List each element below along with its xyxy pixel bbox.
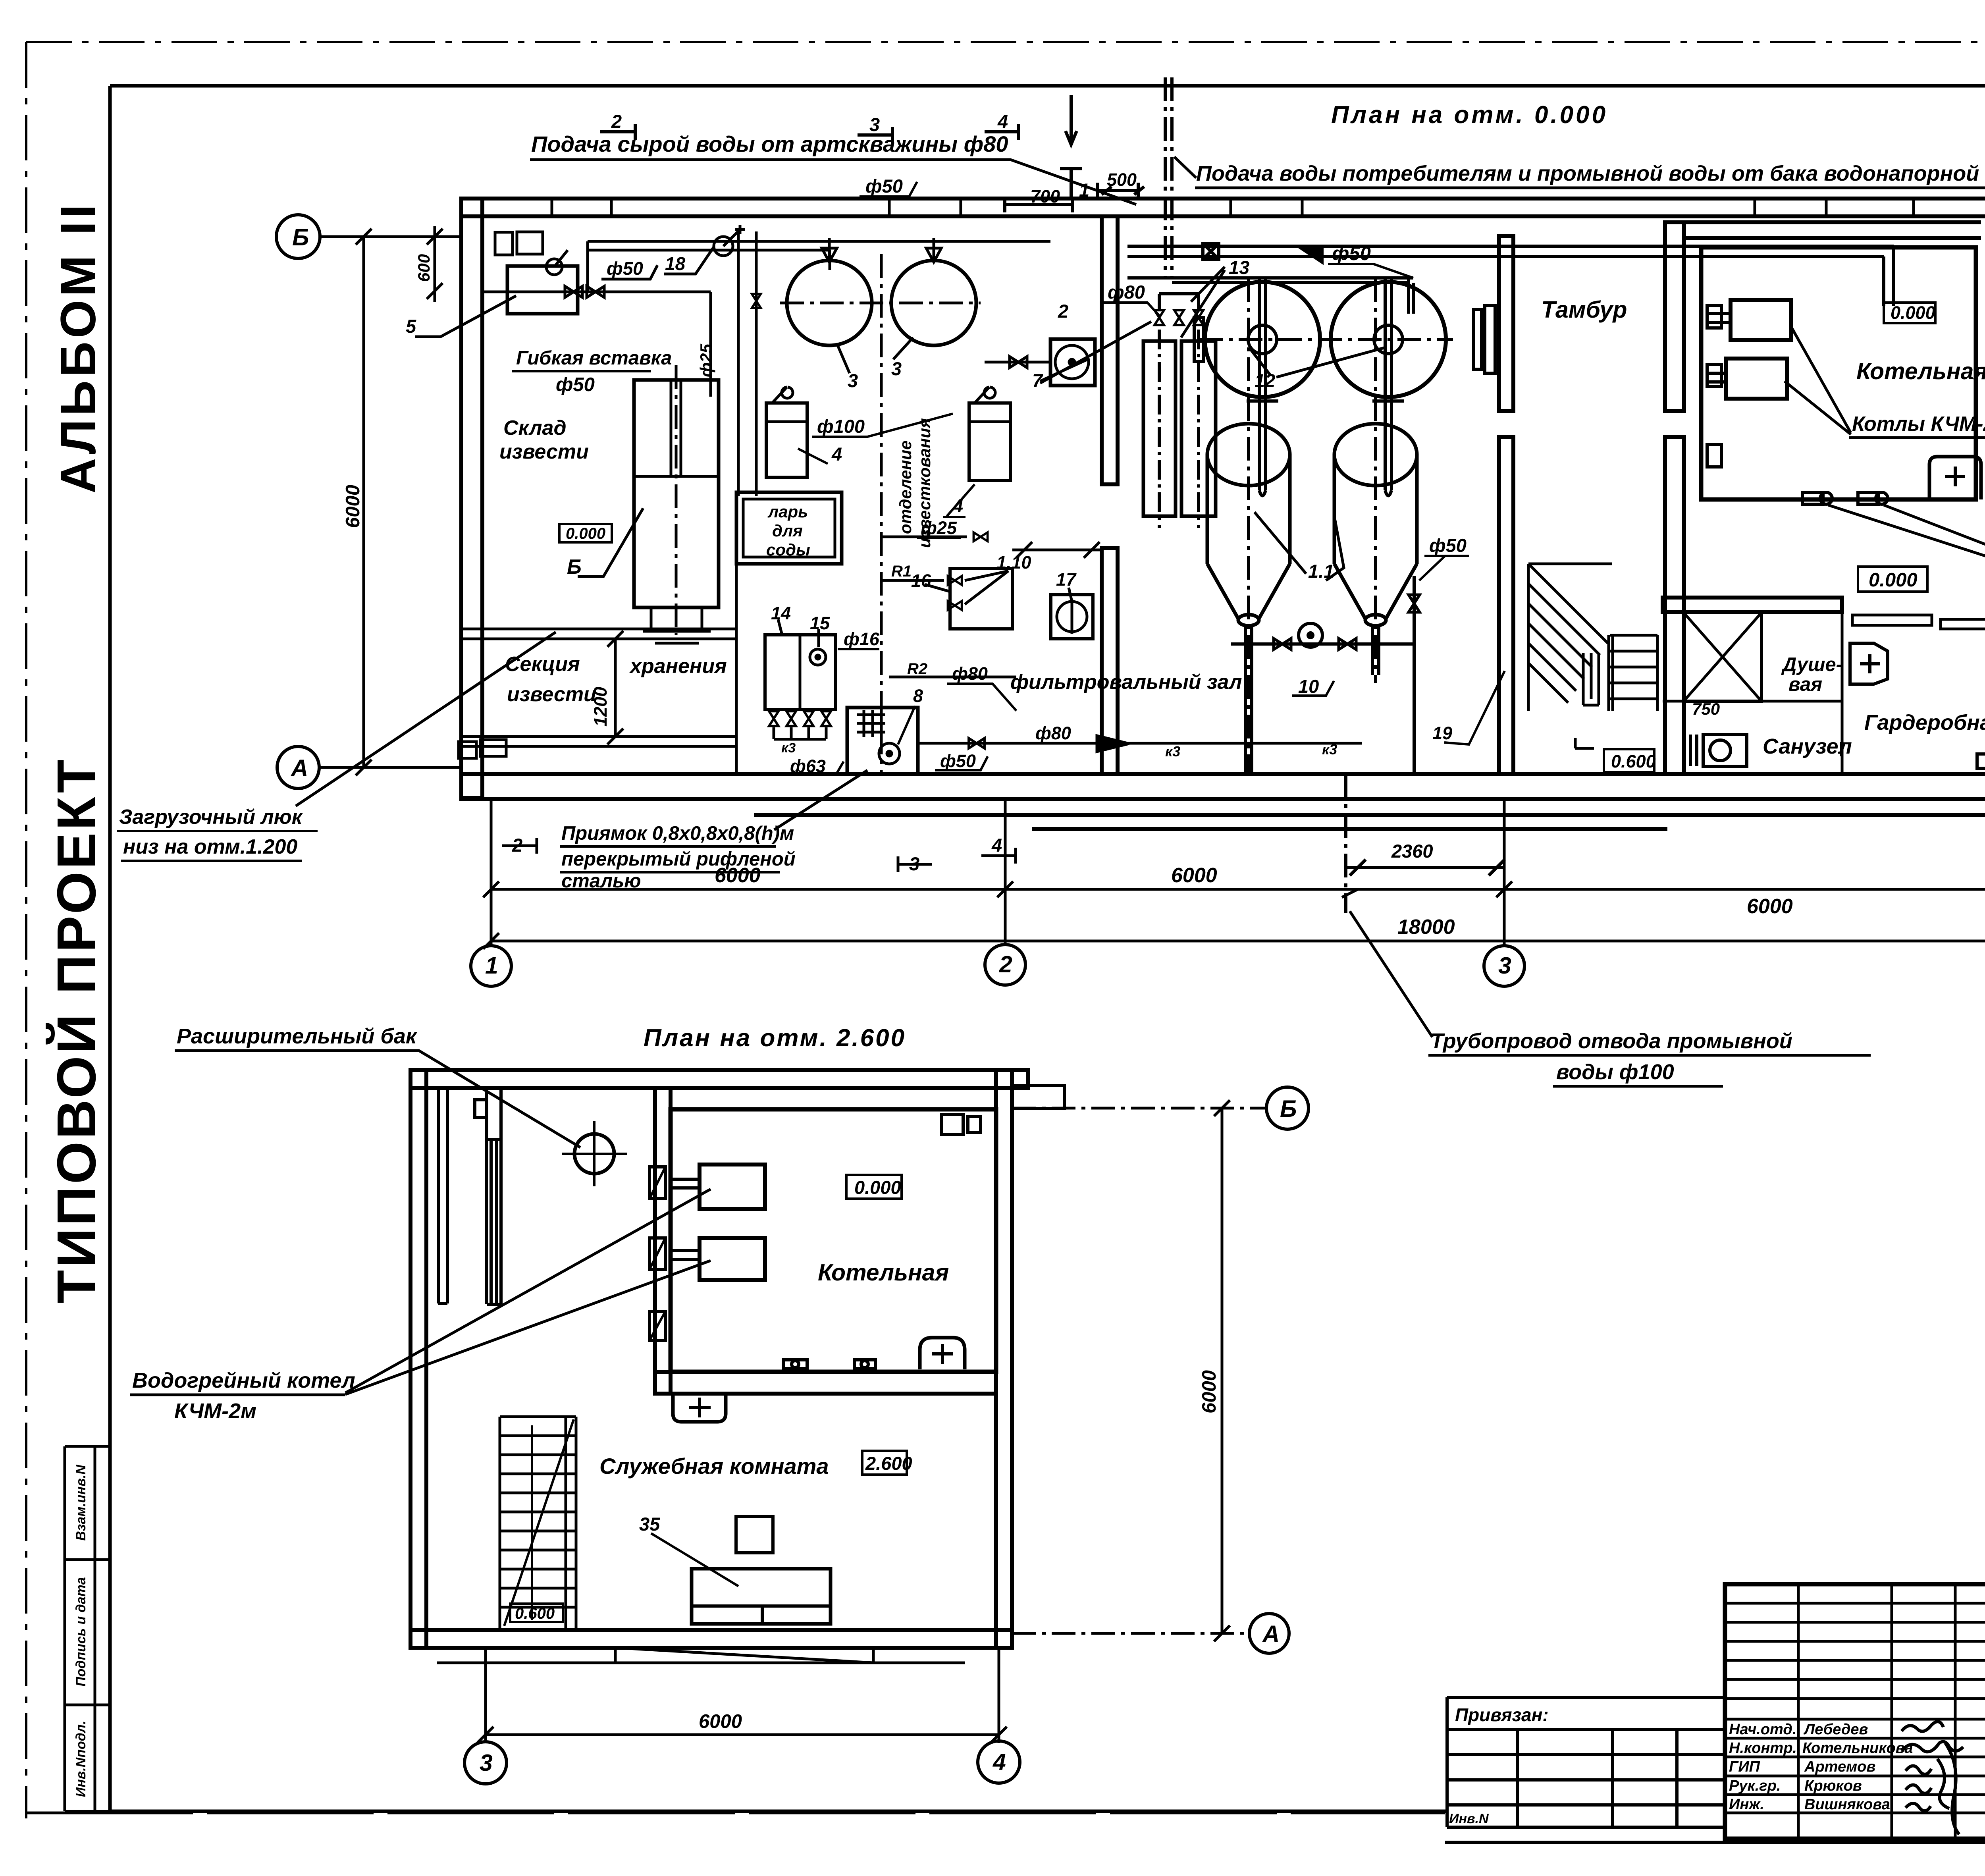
svg-text:Н.контр.: Н.контр. — [1729, 1740, 1797, 1756]
svg-text:ларь: ларь — [767, 502, 808, 521]
svg-text:Служебная комната: Служебная комната — [599, 1454, 829, 1479]
svg-text:R1: R1 — [891, 563, 912, 580]
svg-text:Душе-: Душе- — [1781, 654, 1842, 675]
svg-text:4: 4 — [991, 835, 1002, 856]
svg-text:План на отм. 2.600: План на отм. 2.600 — [644, 1024, 906, 1052]
svg-text:16: 16 — [911, 571, 931, 591]
svg-text:хранения: хранения — [629, 655, 727, 678]
svg-text:3: 3 — [1498, 952, 1511, 979]
svg-text:отделение: отделение — [896, 440, 915, 534]
svg-text:12: 12 — [1255, 370, 1275, 391]
svg-text:Подача сырой воды от артскважи: Подача сырой воды от артскважины ф80 — [531, 131, 1008, 156]
svg-text:750: 750 — [1692, 700, 1720, 718]
svg-text:4: 4 — [992, 1749, 1006, 1775]
svg-text:А: А — [1262, 1621, 1280, 1647]
svg-text:Б: Б — [292, 224, 309, 251]
svg-text:6000: 6000 — [715, 864, 761, 887]
svg-text:ф80: ф80 — [1035, 723, 1071, 743]
svg-text:ф50: ф50 — [556, 374, 595, 395]
svg-text:Б: Б — [567, 555, 582, 578]
svg-text:6000: 6000 — [1199, 1370, 1220, 1413]
svg-text:извести: извести — [507, 683, 596, 706]
svg-text:Крюков: Крюков — [1804, 1778, 1862, 1794]
svg-text:0.000: 0.000 — [854, 1177, 901, 1198]
svg-text:соды: соды — [766, 540, 810, 559]
svg-text:35: 35 — [639, 1514, 660, 1535]
svg-text:14: 14 — [771, 603, 791, 623]
svg-text:ф50: ф50 — [865, 175, 903, 197]
svg-text:Тамбур: Тамбур — [1541, 297, 1627, 323]
svg-text:Котельная: Котельная — [818, 1259, 949, 1286]
svg-text:Загрузочный люк: Загрузочный люк — [119, 806, 303, 829]
svg-text:15: 15 — [810, 613, 830, 633]
svg-text:Склад: Склад — [503, 416, 567, 440]
svg-text:2: 2 — [1058, 301, 1068, 322]
svg-text:0.000: 0.000 — [566, 525, 605, 542]
svg-text:КЧМ-2м: КЧМ-2м — [174, 1399, 256, 1423]
svg-text:17: 17 — [1056, 569, 1077, 590]
svg-text:6000: 6000 — [342, 485, 364, 528]
svg-text:ф50: ф50 — [607, 258, 643, 279]
svg-text:ф25: ф25 — [697, 343, 715, 377]
svg-text:Трубопровод отвода промывной: Трубопровод отвода промывной — [1430, 1029, 1792, 1053]
svg-text:Гибкая вставка: Гибкая вставка — [516, 347, 672, 369]
svg-text:ф25: ф25 — [921, 518, 957, 538]
svg-text:0.000: 0.000 — [1891, 303, 1935, 323]
svg-text:фильтровальный зал: фильтровальный зал — [1010, 671, 1242, 694]
svg-text:Подача воды потребителям и про: Подача воды потребителям и промывной вод… — [1196, 162, 1985, 185]
svg-text:Водогрейный котел: Водогрейный котел — [132, 1369, 355, 1392]
svg-text:2: 2 — [512, 835, 522, 856]
svg-text:ф50: ф50 — [1429, 535, 1467, 556]
svg-text:500: 500 — [1107, 170, 1137, 190]
svg-text:6000: 6000 — [1171, 864, 1217, 887]
svg-text:700: 700 — [1030, 186, 1060, 206]
svg-text:1.10: 1.10 — [996, 552, 1031, 573]
svg-text:8: 8 — [913, 686, 923, 706]
svg-text:0.000: 0.000 — [1869, 569, 1918, 591]
svg-text:Приямок 0,8х0,8х0,8(h)м: Приямок 0,8х0,8х0,8(h)м — [561, 823, 794, 844]
svg-text:Привязан:: Привязан: — [1455, 1704, 1549, 1725]
svg-text:Котельная: Котельная — [1856, 358, 1985, 384]
svg-text:2.600: 2.600 — [865, 1453, 912, 1474]
svg-text:5: 5 — [406, 316, 416, 337]
svg-text:Котельникова: Котельникова — [1802, 1740, 1913, 1756]
svg-text:13: 13 — [1229, 257, 1249, 278]
svg-text:ф80: ф80 — [1108, 281, 1145, 303]
svg-text:ф50: ф50 — [1332, 243, 1371, 264]
svg-text:Рук.гр.: Рук.гр. — [1729, 1778, 1781, 1794]
svg-text:Взам.инв.N: Взам.инв.N — [73, 1464, 89, 1541]
svg-text:Гардеробная: Гардеробная — [1864, 711, 1985, 735]
svg-text:Подпись и дата: Подпись и дата — [73, 1577, 89, 1687]
svg-text:АЛЬБОМ II: АЛЬБОМ II — [51, 201, 106, 494]
svg-text:Б: Б — [1280, 1095, 1297, 1122]
svg-text:Нач.отд.: Нач.отд. — [1729, 1721, 1796, 1738]
svg-text:ф63: ф63 — [790, 756, 826, 776]
svg-text:Артемов: Артемов — [1804, 1758, 1875, 1775]
svg-text:3: 3 — [891, 358, 902, 379]
svg-text:вая: вая — [1788, 674, 1822, 695]
svg-text:Инж.: Инж. — [1729, 1796, 1764, 1813]
svg-text:19: 19 — [1432, 723, 1452, 743]
svg-text:1: 1 — [485, 952, 498, 979]
svg-text:извести: извести — [499, 440, 589, 463]
svg-text:ГИП: ГИП — [1729, 1758, 1760, 1775]
svg-text:Секция: Секция — [505, 653, 580, 676]
svg-text:Вишнякова: Вишнякова — [1804, 1796, 1890, 1813]
svg-text:ф50: ф50 — [940, 751, 976, 771]
svg-text:3: 3 — [909, 853, 919, 874]
svg-text:ТИПОВОЙ ПРОЕКТ: ТИПОВОЙ ПРОЕКТ — [46, 757, 107, 1303]
svg-text:0.600: 0.600 — [515, 1605, 555, 1622]
svg-text:А: А — [290, 755, 308, 781]
svg-text:для: для — [772, 521, 803, 540]
svg-text:R2: R2 — [907, 660, 927, 678]
svg-text:Инв.Nподл.: Инв.Nподл. — [73, 1721, 89, 1797]
svg-text:Расширительный бак: Расширительный бак — [177, 1024, 418, 1048]
svg-text:Инв.N: Инв.N — [1449, 1811, 1489, 1826]
svg-text:1: 1 — [1079, 179, 1089, 201]
svg-text:18000: 18000 — [1397, 916, 1455, 939]
svg-text:Котлы КЧМ-2м: Котлы КЧМ-2м — [1852, 413, 1985, 436]
svg-text:4: 4 — [831, 443, 842, 465]
svg-text:18: 18 — [665, 253, 686, 274]
svg-text:2: 2 — [611, 111, 622, 132]
svg-text:2: 2 — [999, 951, 1012, 978]
svg-text:6000: 6000 — [1747, 895, 1793, 918]
svg-text:600: 600 — [414, 254, 433, 282]
svg-text:низ на отм.1.200: низ на отм.1.200 — [123, 835, 297, 858]
svg-text:План на отм. 0.000: План на отм. 0.000 — [1331, 101, 1608, 129]
svg-text:Лебедев: Лебедев — [1803, 1721, 1868, 1738]
svg-text:к3: к3 — [1322, 741, 1337, 758]
svg-text:к3: к3 — [781, 740, 796, 756]
svg-text:1200: 1200 — [590, 687, 611, 727]
svg-text:0.600: 0.600 — [1611, 751, 1656, 771]
svg-text:ф16: ф16 — [844, 629, 880, 649]
svg-text:ф80: ф80 — [952, 663, 988, 684]
svg-text:ф100: ф100 — [817, 416, 865, 437]
svg-text:10: 10 — [1298, 676, 1319, 697]
svg-text:4: 4 — [997, 111, 1008, 132]
svg-text:Санузел: Санузел — [1763, 735, 1852, 758]
svg-text:6000: 6000 — [699, 1711, 742, 1732]
svg-text:воды ф100: воды ф100 — [1556, 1060, 1674, 1084]
svg-text:3: 3 — [480, 1750, 493, 1776]
svg-text:3: 3 — [848, 370, 858, 391]
svg-text:2360: 2360 — [1391, 841, 1433, 862]
svg-text:к3: к3 — [1165, 743, 1180, 760]
